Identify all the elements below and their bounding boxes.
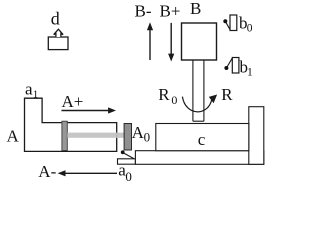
machine right column xyxy=(249,107,264,165)
svg-text:0: 0 xyxy=(144,130,151,145)
limit switch a0 xyxy=(118,150,136,164)
svg-text:A+: A+ xyxy=(62,92,84,111)
pusher block A0 xyxy=(124,124,131,151)
arrow A- left xyxy=(58,170,117,176)
svg-text:A: A xyxy=(7,127,20,146)
svg-text:B+: B+ xyxy=(160,2,181,21)
cylinder B body xyxy=(182,23,217,60)
svg-text:B: B xyxy=(190,0,201,18)
work table c xyxy=(156,124,249,151)
limit switch b0 xyxy=(223,15,237,31)
svg-text:R: R xyxy=(158,85,170,104)
svg-text:R: R xyxy=(221,85,233,104)
drill rod from cylinder B xyxy=(193,60,204,121)
svg-text:d: d xyxy=(51,9,60,29)
svg-text:1: 1 xyxy=(247,66,253,78)
svg-text:0: 0 xyxy=(125,169,131,184)
piston of cylinder A xyxy=(62,121,67,150)
svg-text:c: c xyxy=(198,130,206,149)
cylinder A right wall over rod xyxy=(116,133,118,138)
svg-text:a: a xyxy=(25,80,33,99)
piston rod of A (light gray) xyxy=(67,133,124,138)
machine base plate xyxy=(135,151,263,165)
cylinder A body outline xyxy=(25,98,117,151)
arrow B+ down xyxy=(168,23,174,62)
feeder d box with up block arrow xyxy=(48,29,68,49)
limit switch b1 xyxy=(224,58,239,74)
arrow B- up xyxy=(147,22,153,60)
svg-text:A-: A- xyxy=(38,162,56,181)
rotation arc R xyxy=(182,95,217,112)
svg-text:B-: B- xyxy=(135,2,152,21)
svg-text:0: 0 xyxy=(247,23,253,35)
arrow A+ right xyxy=(62,107,117,113)
svg-text:0: 0 xyxy=(171,93,177,107)
